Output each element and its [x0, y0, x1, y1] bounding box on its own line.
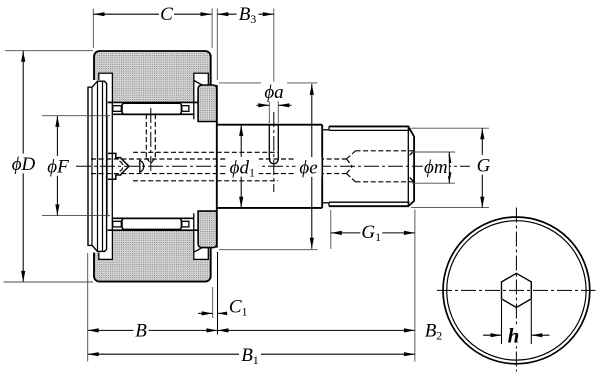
- dimension phi-F: [55, 116, 59, 215]
- extension line phi-a right: [277, 99, 279, 123]
- threaded end: [329, 126, 414, 206]
- dimension G: [480, 128, 484, 207]
- dimension B2: [218, 328, 415, 332]
- extension line phi-F bottom: [42, 215, 110, 217]
- svg-text:ϕe: ϕe: [299, 158, 317, 179]
- extension line C1 left: [212, 287, 214, 318]
- svg-text:B: B: [135, 320, 147, 341]
- dimension C: [94, 12, 212, 16]
- dimension h: [501, 300, 503, 344]
- svg-text:ϕF: ϕF: [47, 156, 69, 177]
- dimension phi-e: [310, 84, 314, 249]
- grease passages (hidden): [91, 152, 347, 181]
- svg-text:ϕD: ϕD: [12, 154, 36, 175]
- end view inner circle: [447, 221, 586, 360]
- grease fitting socket: [108, 153, 129, 179]
- dimension B1: [88, 352, 415, 356]
- dimension phi-m: [447, 152, 451, 183]
- stud raceway surfaces: [112, 113, 193, 115]
- extension line C left: [92, 9, 94, 49]
- left side plates: [87, 80, 108, 253]
- needle rollers bottom: [122, 218, 181, 229]
- grease hole phi-a: [268, 125, 270, 159]
- svg-text:h: h: [508, 323, 520, 347]
- end view outer circle: [443, 217, 590, 364]
- outer ring (stippled section): [94, 51, 211, 282]
- end view centerlines: [437, 289, 596, 291]
- extension line phi-a left: [268, 99, 270, 123]
- extension line phi-e top: [219, 82, 318, 84]
- svg-text:C: C: [160, 4, 173, 25]
- stud shank: [217, 124, 322, 126]
- extension line C right: [211, 9, 213, 49]
- svg-text:ϕa: ϕa: [264, 82, 283, 103]
- svg-text:ϕm: ϕm: [424, 157, 448, 178]
- extension line B/B1 left: [87, 253, 89, 362]
- extension line B3 left: [216, 9, 218, 81]
- dimension phi-D: [21, 51, 25, 282]
- extension line phi-D top: [5, 50, 93, 52]
- extension line C1/B/B2 shared: [217, 252, 219, 335]
- radial grease hole (hidden): [146, 114, 155, 163]
- dimension B: [88, 328, 218, 332]
- extension line G1 left: [330, 210, 332, 249]
- ring bore lines: [99, 101, 209, 103]
- dimension phi-d1: [239, 125, 243, 208]
- extension line phi-m top: [412, 151, 455, 153]
- dimension phi-a: [257, 104, 270, 106]
- extension line phi-D bottom: [4, 281, 94, 283]
- extension line B1/B2/G1 right: [414, 210, 416, 362]
- main centerline: [76, 165, 470, 167]
- right collar (stippled): [198, 85, 217, 122]
- hex socket end view: [502, 273, 532, 307]
- ring seal notches: [99, 73, 113, 102]
- dimension B3: [217, 12, 273, 16]
- svg-text:G: G: [477, 155, 491, 176]
- extension line B3 right / hole axis: [273, 9, 275, 99]
- extension line G top: [411, 127, 489, 129]
- extension line phi-F top: [42, 115, 110, 117]
- thread relief groove: [322, 129, 329, 131]
- extension line G bottom: [411, 207, 489, 209]
- needle rollers top: [122, 103, 181, 114]
- dimension C1: [198, 312, 213, 314]
- hex socket (hidden): [347, 151, 414, 182]
- dimension G1: [331, 231, 415, 235]
- extension line phi-e bottom: [219, 249, 318, 251]
- extension line phi-m bottom: [412, 182, 455, 184]
